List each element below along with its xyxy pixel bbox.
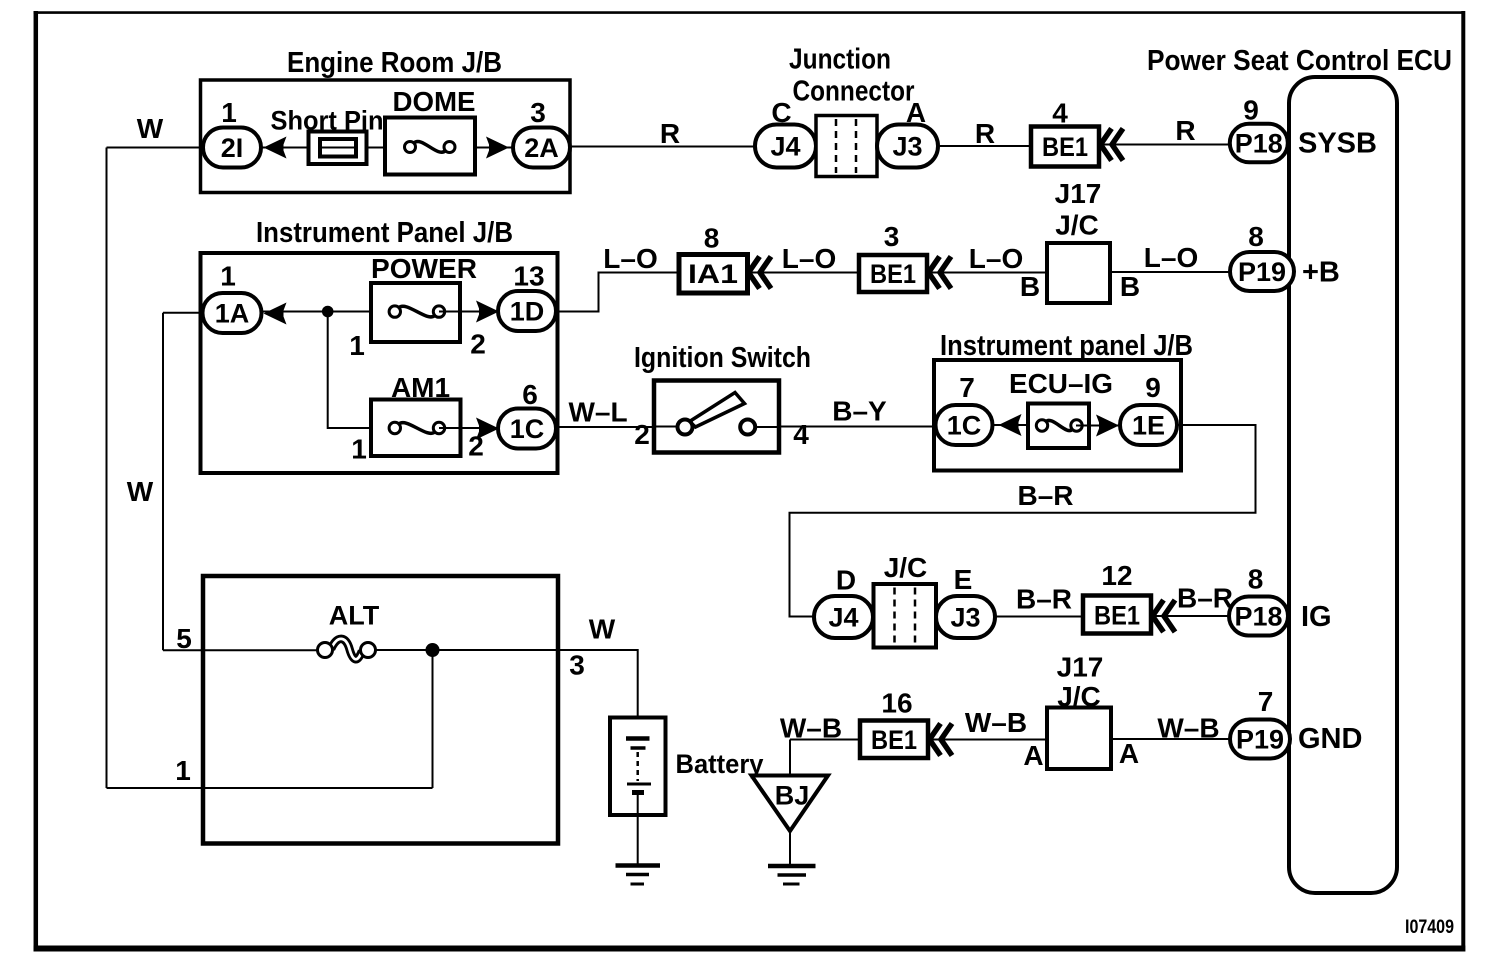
svg-text:2: 2 xyxy=(470,329,486,360)
wire BJ to ground xyxy=(789,831,791,866)
svg-text:Ignition Switch: Ignition Switch xyxy=(634,342,811,374)
wire BE1 to J17 xyxy=(927,272,1047,274)
wire POWER to 1D xyxy=(439,311,499,313)
wire B-R from J3 to BE1 xyxy=(995,616,1083,618)
svg-text:1: 1 xyxy=(220,261,236,292)
svg-text:B: B xyxy=(1120,271,1140,302)
junction connector body (lower) xyxy=(874,584,937,648)
svg-text:I07409: I07409 xyxy=(1405,917,1454,938)
wire W left vertical run xyxy=(106,148,108,789)
connector BE1 (SYSB) xyxy=(1031,127,1099,167)
connector 1A xyxy=(203,293,262,333)
svg-text:7: 7 xyxy=(959,372,975,403)
wire W from 1A to left xyxy=(163,312,204,314)
wire W from connector 2I to left xyxy=(107,147,205,149)
junction connector J17 body xyxy=(1047,243,1110,303)
svg-text:R: R xyxy=(1175,115,1195,146)
ground (BJ) xyxy=(768,866,816,884)
svg-text:A: A xyxy=(1023,740,1043,771)
svg-text:J/C: J/C xyxy=(1055,210,1099,241)
wire 1C to ECU-IG xyxy=(992,424,1042,426)
svg-text:1: 1 xyxy=(351,434,367,465)
svg-text:Instrument Panel J/B: Instrument Panel J/B xyxy=(256,217,513,249)
wire vertical up to ALT output node xyxy=(432,650,434,788)
wire BE1 to P18 xyxy=(1151,615,1230,617)
svg-text:8: 8 xyxy=(704,223,720,254)
Instrument panel J/B box xyxy=(934,360,1181,471)
wire node to AM1 xyxy=(328,312,395,429)
svg-text:B–R: B–R xyxy=(1177,583,1233,614)
border frame xyxy=(34,11,39,952)
svg-text:1: 1 xyxy=(349,330,365,361)
wire R from J3 to BE1 xyxy=(938,145,1031,147)
svg-text:Junction: Junction xyxy=(789,44,891,76)
chevrons at BE1 xyxy=(1153,600,1176,632)
svg-text:W–L: W–L xyxy=(568,397,627,428)
wire J17 to P19 xyxy=(1111,738,1230,740)
svg-text:+B: +B xyxy=(1302,257,1340,289)
svg-text:B: B xyxy=(1020,271,1040,302)
svg-text:Engine Room J/B: Engine Room J/B xyxy=(287,47,502,79)
connector BE1 (+B) xyxy=(859,255,927,292)
svg-text:R: R xyxy=(975,118,995,149)
chevrons at BE1 xyxy=(1101,129,1124,161)
wire BE1 to J17 xyxy=(928,739,1047,741)
svg-text:BE1: BE1 xyxy=(871,725,917,755)
svg-text:J/C: J/C xyxy=(884,552,928,583)
arrow into 1C xyxy=(476,418,499,440)
node junction dot xyxy=(322,306,334,318)
arrow into 1A xyxy=(264,303,287,325)
svg-text:DOME: DOME xyxy=(393,86,476,117)
connector 1D xyxy=(498,291,556,331)
svg-text:B–R: B–R xyxy=(1016,584,1072,615)
ALT box xyxy=(203,576,558,844)
svg-text:Connector: Connector xyxy=(793,76,915,108)
ground (battery) xyxy=(616,866,661,885)
svg-text:1A: 1A xyxy=(215,299,250,329)
connector IA1 xyxy=(679,255,748,294)
svg-text:L–O: L–O xyxy=(603,243,657,274)
short pin symbol xyxy=(309,132,367,165)
wire ECU-IG to 1E xyxy=(1076,425,1120,427)
wire J17 to P19 xyxy=(1110,271,1230,273)
svg-text:L–O: L–O xyxy=(782,243,836,274)
svg-text:8: 8 xyxy=(1248,564,1264,595)
wire battery to ground xyxy=(637,793,639,866)
junction connector J3 xyxy=(877,125,938,168)
arrow into 1E xyxy=(1096,415,1119,437)
wire from ALT node to battery xyxy=(433,650,638,738)
wire W vertical run to ALT pin 5 xyxy=(162,313,164,651)
svg-text:B–Y: B–Y xyxy=(832,396,887,427)
svg-text:J3: J3 xyxy=(892,132,922,162)
svg-text:9: 9 xyxy=(1145,372,1161,403)
svg-text:BE1: BE1 xyxy=(1094,601,1140,631)
wire W-L from 1C to ignition switch xyxy=(556,426,654,428)
wire 1A to POWER fuse xyxy=(262,311,395,313)
chevrons at IA1 xyxy=(749,257,772,289)
svg-text:D: D xyxy=(836,565,856,596)
wire R from 2A to J4 xyxy=(570,146,756,148)
svg-text:4: 4 xyxy=(1052,98,1068,129)
svg-text:W: W xyxy=(127,476,154,507)
fuse POWER xyxy=(371,283,460,342)
svg-text:IG: IG xyxy=(1301,601,1332,633)
connector P18 (IG) xyxy=(1229,597,1288,636)
svg-text:E: E xyxy=(954,564,973,595)
alternator fusible link xyxy=(318,639,376,659)
wire IA1 to BE1 xyxy=(748,272,860,274)
connector P19 (+B) xyxy=(1230,252,1294,291)
wire through Engine Room J/B xyxy=(261,147,513,149)
ECU block: Power Seat Control ECU xyxy=(1147,45,1452,893)
junction connector J17 label xyxy=(1055,178,1102,241)
Engine Room J/B box xyxy=(201,80,571,193)
svg-text:2: 2 xyxy=(634,419,650,450)
wire fusible link to node xyxy=(376,649,433,651)
svg-text:3: 3 xyxy=(530,97,546,128)
svg-text:P18: P18 xyxy=(1235,602,1283,632)
svg-text:ECU–IG: ECU–IG xyxy=(1009,368,1113,399)
svg-text:W: W xyxy=(137,113,164,144)
ignition switch SW1 xyxy=(654,381,779,453)
connector 1E xyxy=(1120,405,1177,445)
svg-text:P19: P19 xyxy=(1238,257,1286,287)
wire W-B from BJ to BE1 xyxy=(790,739,860,741)
connector 2I xyxy=(203,128,261,168)
svg-text:SYSB: SYSB xyxy=(1298,128,1377,160)
svg-text:BE1: BE1 xyxy=(1042,132,1088,162)
svg-text:1E: 1E xyxy=(1132,411,1165,441)
svg-text:1D: 1D xyxy=(510,297,545,327)
svg-text:J4: J4 xyxy=(828,603,858,633)
svg-text:13: 13 xyxy=(513,261,544,292)
wire R from BE1 to P18 xyxy=(1099,144,1230,146)
ground point BJ xyxy=(752,776,829,832)
junction connector J3 (lower) xyxy=(936,596,995,638)
svg-text:1C: 1C xyxy=(947,411,982,441)
svg-text:L–O: L–O xyxy=(1144,242,1198,273)
svg-text:2I: 2I xyxy=(221,133,244,163)
arrow into 2I xyxy=(264,137,287,159)
connector P18 (SYSB) xyxy=(1230,124,1288,163)
connector 1C (panel) xyxy=(936,405,993,445)
svg-text:POWER: POWER xyxy=(371,253,477,284)
svg-text:W–B: W–B xyxy=(780,713,842,744)
svg-text:BE1: BE1 xyxy=(870,259,916,289)
svg-text:B–R: B–R xyxy=(1017,480,1073,511)
chevrons at BE1 xyxy=(929,257,952,289)
fuse DOME xyxy=(385,118,475,175)
chevrons at BE1 xyxy=(930,724,953,756)
wire into ALT pin 5 xyxy=(163,649,318,651)
svg-text:7: 7 xyxy=(1258,686,1274,717)
svg-text:J17: J17 xyxy=(1055,178,1102,209)
wire 1D up to +B row xyxy=(556,273,679,312)
arrow into 2A xyxy=(486,137,509,159)
wire AM1 to 1C xyxy=(439,427,499,429)
svg-text:12: 12 xyxy=(1101,560,1132,591)
wire W bottom horizontal into ALT pin 1 xyxy=(107,787,433,789)
svg-text:1: 1 xyxy=(175,755,191,786)
svg-text:W–B: W–B xyxy=(1157,713,1219,744)
svg-text:1C: 1C xyxy=(510,414,545,444)
svg-text:9: 9 xyxy=(1243,95,1259,126)
svg-text:R: R xyxy=(660,118,680,149)
svg-text:A: A xyxy=(1119,738,1139,769)
svg-text:J3: J3 xyxy=(950,603,980,633)
svg-text:2A: 2A xyxy=(524,133,559,163)
svg-text:4: 4 xyxy=(793,419,809,450)
junction connector J4 (lower) xyxy=(814,596,873,638)
svg-text:6: 6 xyxy=(522,379,538,410)
junction connector body xyxy=(816,116,877,177)
connector P19 (GND) xyxy=(1230,720,1290,759)
svg-text:J17: J17 xyxy=(1057,652,1104,683)
junction connector J17 label (lower) xyxy=(1057,652,1104,713)
svg-text:Instrument panel J/B: Instrument panel J/B xyxy=(940,330,1193,362)
node junction dot (ALT) xyxy=(426,643,440,657)
svg-text:3: 3 xyxy=(884,221,900,252)
svg-text:J4: J4 xyxy=(770,132,800,162)
svg-text:P18: P18 xyxy=(1235,129,1283,159)
svg-text:3: 3 xyxy=(569,650,585,681)
fuse ECU-IG xyxy=(1028,404,1089,449)
connector 2A xyxy=(513,128,570,168)
svg-text:W–B: W–B xyxy=(965,707,1027,738)
junction connector J17 body (lower) xyxy=(1047,708,1111,770)
svg-text:IA1: IA1 xyxy=(688,259,738,289)
svg-text:BJ: BJ xyxy=(775,781,810,811)
svg-text:1: 1 xyxy=(221,97,237,128)
battery xyxy=(610,718,666,816)
wire from BJ up to GND row xyxy=(789,740,791,777)
svg-text:ALT: ALT xyxy=(329,601,380,631)
wire B-Y from ignition switch to 1C xyxy=(779,426,936,428)
svg-text:W: W xyxy=(589,614,616,645)
svg-text:L–O: L–O xyxy=(969,243,1023,274)
svg-text:GND: GND xyxy=(1298,723,1362,755)
connector BE1 (GND) xyxy=(860,721,928,759)
svg-text:P19: P19 xyxy=(1236,725,1284,755)
arrow into 1C xyxy=(999,414,1022,436)
connector 1C xyxy=(498,409,556,449)
connector BE1 (IG) xyxy=(1083,596,1151,634)
arrow into 1D xyxy=(476,301,499,323)
fuse AM1 xyxy=(371,400,461,457)
svg-text:Power Seat Control ECU: Power Seat Control ECU xyxy=(1147,45,1452,77)
Junction Connector title xyxy=(789,44,915,108)
svg-text:16: 16 xyxy=(881,688,912,719)
junction connector J4 xyxy=(755,125,816,168)
wire B-R from 1E down to J4 xyxy=(790,425,1256,617)
svg-text:8: 8 xyxy=(1248,221,1264,252)
Instrument Panel J/B box xyxy=(201,253,558,473)
